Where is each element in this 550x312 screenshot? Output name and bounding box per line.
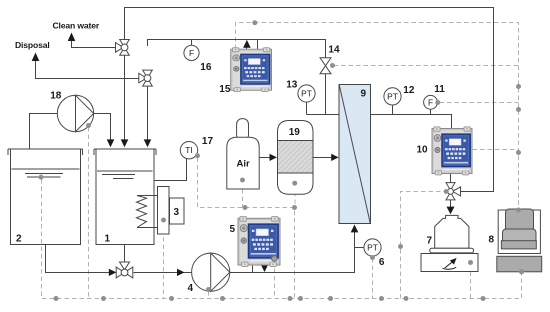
svg-text:1: 1 <box>105 234 111 245</box>
svg-text:Disposal: Disposal <box>15 40 50 50</box>
svg-text:8: 8 <box>489 235 495 246</box>
svg-text:18: 18 <box>50 91 62 102</box>
svg-text:TI: TI <box>185 145 192 155</box>
svg-text:9: 9 <box>361 89 367 100</box>
svg-text:Air: Air <box>237 159 251 170</box>
svg-text:F: F <box>428 97 433 107</box>
svg-text:2: 2 <box>16 234 22 245</box>
svg-text:17: 17 <box>202 136 214 147</box>
svg-text:Clean water: Clean water <box>53 21 100 31</box>
svg-text:7: 7 <box>427 236 433 247</box>
svg-text:10: 10 <box>417 145 429 156</box>
svg-text:F: F <box>189 48 194 58</box>
svg-text:15: 15 <box>219 84 231 95</box>
svg-text:PT: PT <box>367 243 378 253</box>
svg-text:4: 4 <box>188 283 194 294</box>
svg-text:3: 3 <box>174 207 180 218</box>
svg-text:6: 6 <box>379 257 385 268</box>
svg-text:PT: PT <box>301 89 312 99</box>
svg-text:13: 13 <box>286 80 298 91</box>
svg-text:12: 12 <box>403 85 415 96</box>
svg-text:11: 11 <box>434 84 445 95</box>
svg-text:PT: PT <box>387 91 398 101</box>
svg-text:14: 14 <box>328 45 340 56</box>
svg-text:5: 5 <box>230 224 236 235</box>
svg-text:16: 16 <box>200 62 212 73</box>
svg-text:19: 19 <box>289 127 301 138</box>
